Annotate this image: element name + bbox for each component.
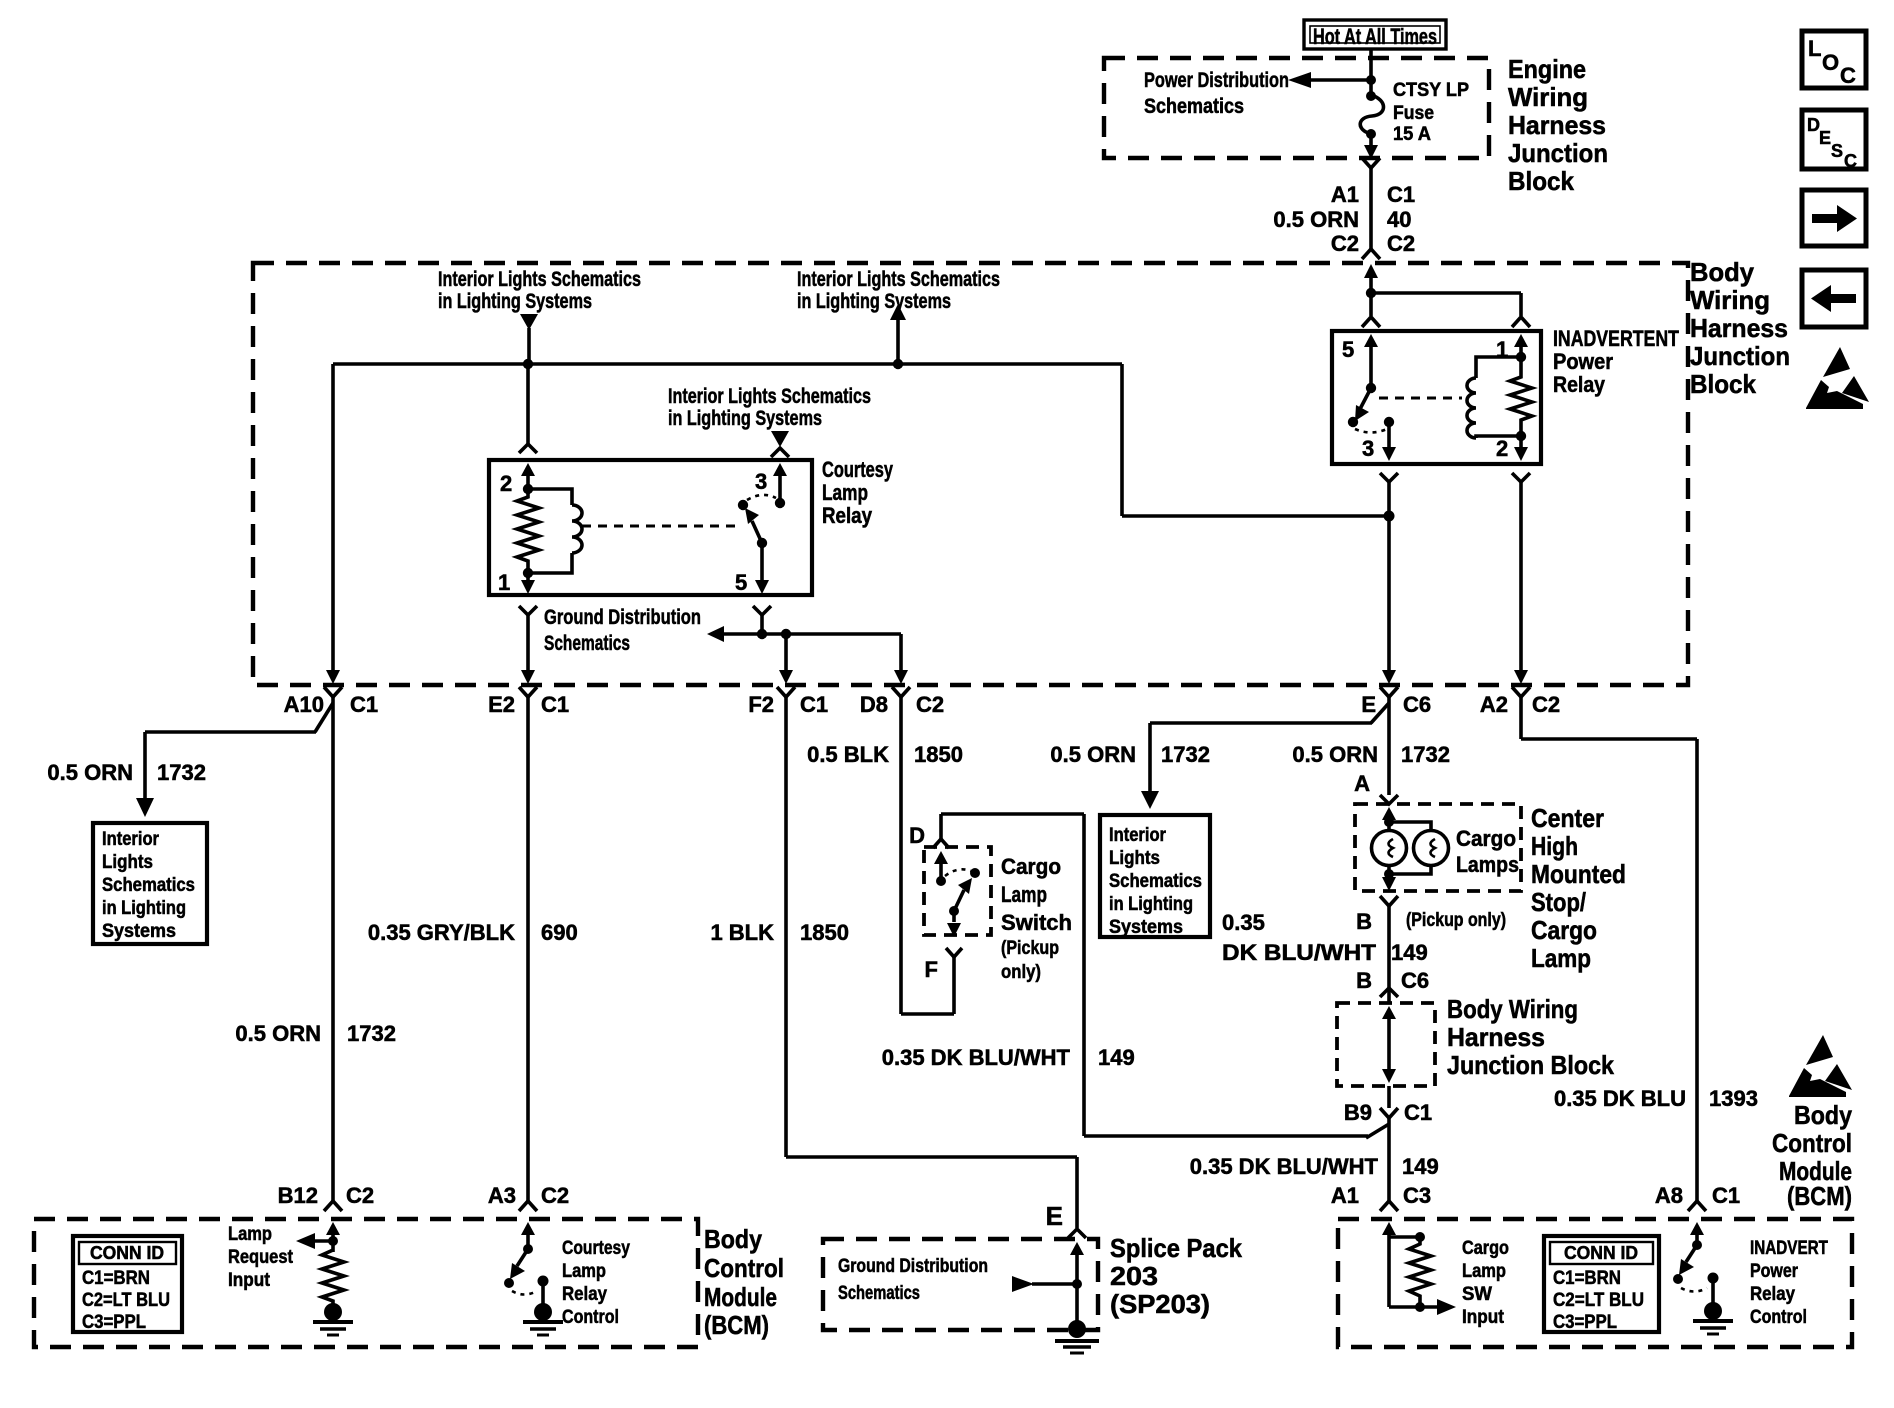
svg-text:Lamp: Lamp [228, 1224, 272, 1245]
BCM A3 entry arrow [521, 1222, 535, 1247]
connector half at relay pin 1 [1512, 317, 1530, 327]
label 0.35 DK BLU/WHT 149 upper [1222, 910, 1428, 965]
relay K2 switch contact left [1348, 417, 1358, 427]
svg-text:Cargo: Cargo [1531, 915, 1597, 945]
wire D8 branch to exit [894, 634, 908, 684]
engine wiring harness junction block dashed box [1104, 58, 1489, 158]
svg-text:C3=PPL: C3=PPL [82, 1312, 146, 1333]
relay K1 pin 2 entry [500, 463, 535, 496]
svg-text:in Lighting: in Lighting [1109, 894, 1193, 915]
wire relay K2 pin 2 down to A2/C2 exit [1514, 482, 1528, 684]
switch S1 contact left [936, 876, 946, 886]
label Body Wiring Harness Junction Block small [1447, 994, 1614, 1080]
wire relay K1 pin1 to ground exit E2 [521, 615, 535, 684]
relay K1 coil bottom node [523, 568, 533, 578]
svg-text:Lamp: Lamp [562, 1261, 606, 1282]
cargo lamp sw input resistor crossbar [1389, 1232, 1425, 1242]
svg-text:C3: C3 [1403, 1183, 1431, 1208]
svg-text:40: 40 [1387, 207, 1411, 232]
icon LOC box [1802, 31, 1866, 88]
lamp request tap arrow [296, 1233, 338, 1249]
svg-text:D: D [909, 823, 925, 848]
wire A10 feed down to exit [326, 364, 340, 684]
ground bus wire with reference arrow [707, 626, 901, 642]
svg-text:S: S [1831, 141, 1843, 161]
svg-text:C1: C1 [350, 692, 378, 717]
svg-text:690: 690 [541, 920, 578, 945]
relay K1 switch contact left [738, 500, 748, 510]
svg-text:1732: 1732 [1161, 742, 1210, 767]
svg-text:Wiring: Wiring [1508, 82, 1588, 112]
node junction dot feeding relay pins 5 and 1 [1366, 288, 1376, 298]
svg-text:Power Distribution: Power Distribution [1144, 69, 1289, 92]
svg-text:C2=LT BLU: C2=LT BLU [82, 1290, 170, 1311]
relay K1 coil top node [523, 484, 533, 494]
svg-text:in Lighting: in Lighting [102, 898, 186, 919]
connector B12/C2 [278, 1183, 374, 1211]
lamp feed entry [1382, 807, 1396, 831]
module BCM left dashed box [34, 1219, 698, 1347]
conn id table right [1544, 1236, 1659, 1333]
svg-text:L: L [1808, 36, 1821, 61]
svg-text:Power: Power [1750, 1261, 1798, 1282]
svg-text:0.5 ORN: 0.5 ORN [1050, 742, 1136, 767]
wire F2 branch to exit [779, 634, 793, 684]
wire B9 down to A1 [1387, 1118, 1391, 1201]
svg-text:0.35 DK BLU: 0.35 DK BLU [1554, 1086, 1686, 1111]
svg-text:Junction Block: Junction Block [1447, 1050, 1614, 1080]
relay K2 switch contact right [1384, 417, 1394, 427]
label 0.5 ORN 1732 tap [1050, 742, 1210, 767]
svg-text:C1: C1 [1404, 1100, 1432, 1125]
icon ESD warning top [1806, 347, 1869, 409]
svg-text:Schematics: Schematics [838, 1283, 920, 1304]
svg-text:Lamp: Lamp [1462, 1261, 1506, 1282]
body wiring harness junction block dashed box [253, 263, 1688, 685]
svg-text:Body: Body [704, 1224, 762, 1254]
svg-text:Input: Input [1462, 1307, 1505, 1328]
connector E2/C1 [488, 687, 569, 717]
wire down to E/C6 exit [1382, 516, 1396, 684]
svg-text:Control: Control [562, 1307, 619, 1328]
relay K2 switch pivot [1366, 383, 1376, 393]
node ground bus at F2 branch [781, 629, 791, 639]
svg-text:Interior Lights Schematics: Interior Lights Schematics [797, 268, 1000, 291]
resistor cargo lamp sw input [1409, 1237, 1431, 1307]
svg-text:Ground Distribution: Ground Distribution [838, 1256, 988, 1277]
svg-text:Hot At All Times: Hot At All Times [1313, 24, 1437, 49]
label 0.35 DK BLU/WHT 149 lower [1190, 1154, 1439, 1179]
node splice of bus into pin3 wire [1384, 511, 1395, 522]
label Ground Distribution Schematics bottom [838, 1256, 988, 1304]
svg-text:5: 5 [1342, 337, 1354, 362]
wire from hot banner [1369, 49, 1373, 96]
relay K2 coil top node [1516, 352, 1526, 362]
svg-text:1732: 1732 [1401, 742, 1450, 767]
connector A2/C2 [1480, 687, 1560, 717]
lamp bus top [1389, 822, 1431, 831]
lamp L1 cargo lamp left [1372, 831, 1407, 866]
svg-text:C2=LT BLU: C2=LT BLU [1553, 1290, 1644, 1311]
svg-text:15 A: 15 A [1393, 124, 1431, 145]
relay K2 coil branch [1467, 357, 1521, 438]
ref box Interior Lights Schematics left [93, 823, 207, 944]
svg-text:C1: C1 [1387, 182, 1415, 207]
wire B down to junction block [1387, 906, 1391, 1003]
ground G203 splice pack [1055, 1320, 1099, 1353]
switch S1 cargo lamp switch dashed box [924, 847, 991, 935]
svg-text:E: E [1046, 1201, 1063, 1231]
label Courtesy Lamp Relay Control [562, 1238, 630, 1328]
relay K2 pin 1 wire [1496, 334, 1528, 362]
svg-text:Junction: Junction [1508, 138, 1608, 168]
ref Ground Distribution Schematics [544, 606, 701, 655]
connector A8/C1 [1655, 1183, 1740, 1211]
ref Interior Lights Schematics middle [668, 385, 871, 447]
svg-text:Courtesy: Courtesy [822, 457, 894, 482]
node ground bus at pin5 [757, 629, 767, 639]
svg-text:only): only) [1001, 962, 1041, 983]
svg-text:0.5 ORN: 0.5 ORN [47, 760, 133, 785]
wire fuse to connector [1364, 134, 1378, 159]
wire B9 tap to cargo switch loop [1084, 1124, 1389, 1138]
splice feed reference arrow [1012, 1276, 1077, 1292]
relay K1 pin 3 entry [755, 463, 787, 503]
courtesy relay control switch top node [523, 1244, 533, 1254]
svg-text:A1: A1 [1331, 182, 1359, 207]
svg-text:Interior Lights Schematics: Interior Lights Schematics [668, 385, 871, 408]
wire over to relay pin 1 [1371, 293, 1521, 316]
relay K2 INADVERTENT power relay box [1332, 331, 1541, 464]
switch S1 travel arc [945, 869, 971, 876]
ground at lamp request resistor [313, 1303, 353, 1335]
relay K2 pin 2 wire [1496, 436, 1528, 461]
ref Interior Lights Schematics right [797, 268, 1000, 364]
svg-text:1850: 1850 [914, 742, 963, 767]
switch S1 contact right [970, 868, 980, 878]
svg-text:Body Wiring: Body Wiring [1447, 994, 1578, 1024]
lamp assembly dashed box [1355, 804, 1521, 891]
svg-text:Courtesy: Courtesy [562, 1238, 630, 1259]
svg-text:D8: D8 [860, 692, 888, 717]
connector half at F [946, 948, 962, 957]
label 0.35 DK BLU/WHT 149 middle [882, 1045, 1135, 1070]
connector half below relay K2 pin 2 [1512, 473, 1530, 482]
label 0.35 GRY/BLK 690 [368, 920, 578, 945]
icon forward arrow box [1802, 190, 1866, 246]
svg-text:C1=BRN: C1=BRN [82, 1268, 150, 1289]
wire D loop over to B9 [941, 814, 1084, 1136]
BCM B12 entry arrow [326, 1222, 340, 1252]
svg-text:C2: C2 [916, 692, 944, 717]
svg-text:Cargo: Cargo [1001, 854, 1061, 879]
label 0.5 ORN 1732 on A10 column [235, 1021, 396, 1046]
svg-text:149: 149 [1402, 1154, 1439, 1179]
ground distribution dashed box [823, 1239, 1098, 1330]
svg-text:A2: A2 [1480, 692, 1508, 717]
wire entry from C2 into body box [1364, 264, 1378, 293]
svg-text:3: 3 [1362, 436, 1374, 461]
svg-text:Relay: Relay [822, 503, 873, 528]
svg-text:Systems: Systems [1109, 917, 1183, 938]
svg-text:0.35: 0.35 [1222, 910, 1265, 935]
connector half at E [1068, 1229, 1086, 1238]
wire to relay pin 5 [1369, 293, 1373, 316]
svg-text:Control: Control [1750, 1307, 1807, 1328]
switch S1 F-side exit [947, 911, 961, 937]
svg-text:A10: A10 [284, 692, 324, 717]
label 0.35 DK BLU 1393 [1554, 1086, 1758, 1111]
splice pack entry arrow [1070, 1242, 1084, 1322]
svg-text:0.5 ORN: 0.5 ORN [1273, 207, 1359, 232]
courtesy relay control stub and ground [523, 1276, 563, 1336]
wire bus down to courtesy relay pin 2 [526, 364, 530, 444]
svg-text:(Pickup: (Pickup [1001, 938, 1059, 959]
svg-text:B12: B12 [278, 1183, 318, 1208]
label Cargo Lamps [1456, 826, 1519, 877]
switch S1 arm [954, 878, 972, 911]
svg-text:Harness: Harness [1690, 313, 1788, 343]
svg-text:Lamp: Lamp [822, 480, 868, 505]
svg-text:Splice Pack: Splice Pack [1110, 1233, 1242, 1263]
node lamp top [1384, 817, 1394, 827]
svg-text:Interior: Interior [102, 829, 160, 850]
svg-text:Block: Block [1690, 369, 1756, 399]
svg-text:A: A [1354, 771, 1370, 796]
svg-text:2: 2 [500, 471, 512, 496]
BCM A8 entry arrow [1690, 1222, 1704, 1243]
svg-text:Lamp: Lamp [1001, 882, 1047, 907]
node lamp bottom [1384, 869, 1394, 879]
svg-text:A3: A3 [488, 1183, 516, 1208]
svg-text:0.35 DK BLU/WHT: 0.35 DK BLU/WHT [1190, 1154, 1379, 1179]
svg-text:B: B [1356, 909, 1372, 934]
svg-text:F2: F2 [748, 692, 774, 717]
svg-text:C1: C1 [541, 692, 569, 717]
svg-text:1 BLK: 1 BLK [710, 920, 774, 945]
node bus tap right lamp feed [893, 359, 903, 369]
svg-text:5: 5 [735, 570, 747, 595]
svg-text:203: 203 [1110, 1261, 1158, 1291]
lamp exit wire [1382, 866, 1396, 891]
BCM A1 entry arrow [1382, 1222, 1396, 1307]
svg-text:1393: 1393 [1709, 1086, 1758, 1111]
connector A1/C1 [1331, 158, 1415, 207]
svg-text:Schematics: Schematics [1144, 95, 1244, 118]
svg-text:Fuse: Fuse [1393, 103, 1434, 124]
junction block entry arrow [1382, 1006, 1396, 1083]
svg-text:Engine: Engine [1508, 54, 1586, 84]
icon back arrow box [1802, 270, 1866, 327]
wire 0.5 ORN 40 [1273, 168, 1411, 249]
node splice junction [1072, 1279, 1082, 1289]
svg-text:3: 3 [755, 469, 767, 494]
label Power Distribution Schematics [1144, 69, 1289, 118]
connector half below relay K2 pin 3 [1380, 473, 1398, 482]
svg-text:A1: A1 [1331, 1183, 1359, 1208]
svg-text:INADVERT: INADVERT [1750, 1238, 1828, 1259]
wire E column down to lamps [1387, 697, 1391, 795]
svg-text:Schematics: Schematics [102, 875, 195, 896]
label Cargo Lamp Switch [1001, 854, 1072, 983]
relay K2 switch travel arc [1355, 429, 1387, 433]
svg-text:Control: Control [704, 1253, 784, 1283]
connector half at relay pin 5 [1362, 317, 1380, 327]
relay K2 actuation dashed link [1379, 397, 1462, 400]
relay K2 resistor [1510, 357, 1532, 436]
svg-text:DK BLU/WHT: DK BLU/WHT [1222, 940, 1377, 965]
label Body Control Module (BCM) left [704, 1224, 784, 1340]
connector B/C6 [1356, 968, 1429, 997]
wire relay K1 pin5 down to ground bus [760, 615, 764, 634]
svg-text:C1: C1 [1712, 1183, 1740, 1208]
connector half at D [933, 839, 949, 848]
svg-text:CONN ID: CONN ID [90, 1243, 164, 1263]
svg-text:in Lighting Systems: in Lighting Systems [797, 290, 951, 313]
svg-text:Stop/: Stop/ [1531, 887, 1586, 917]
svg-text:E2: E2 [488, 692, 515, 717]
label Engine Wiring Harness Junction Block [1508, 54, 1608, 196]
connector F2/C1 [748, 687, 828, 717]
svg-text:C2: C2 [1331, 231, 1359, 256]
svg-text:Mounted: Mounted [1531, 859, 1626, 889]
relay K1 coil branch [528, 489, 582, 573]
svg-text:C2: C2 [1387, 231, 1415, 256]
svg-text:C: C [1840, 63, 1856, 88]
label INADVERT Power Relay Control [1750, 1238, 1828, 1328]
connector A3/C2 [488, 1183, 569, 1211]
relay K1 pin 1 exit [498, 570, 535, 595]
relay K1 actuation dashed link [582, 525, 738, 528]
svg-text:Lamp: Lamp [1531, 943, 1591, 973]
svg-text:1732: 1732 [157, 760, 206, 785]
svg-text:SW: SW [1462, 1284, 1492, 1305]
svg-text:Relay: Relay [1750, 1284, 1795, 1305]
connector A1/C3 [1331, 1183, 1431, 1211]
relay K2 pin 3 wire [1362, 422, 1396, 461]
svg-text:0.35 DK BLU/WHT: 0.35 DK BLU/WHT [882, 1045, 1071, 1070]
svg-text:Cargo: Cargo [1456, 826, 1516, 851]
inadvert relay control switch top node [1692, 1240, 1702, 1250]
svg-text:0.35 GRY/BLK: 0.35 GRY/BLK [368, 920, 515, 945]
label Lamp Request Input [228, 1224, 294, 1291]
svg-text:Cargo: Cargo [1462, 1238, 1509, 1259]
icon DESC box [1802, 110, 1866, 171]
ref Interior Lights Schematics left [438, 268, 641, 364]
svg-text:B: B [1356, 968, 1372, 993]
svg-text:(SP203): (SP203) [1110, 1289, 1210, 1319]
label Splice Pack 203 (SP203) [1110, 1233, 1242, 1319]
wire arrow to power distribution [1288, 72, 1376, 88]
relay K1 resistor [517, 489, 539, 573]
svg-text:Input: Input [228, 1270, 271, 1291]
label Body Control Module (BCM) right [1772, 1100, 1852, 1186]
svg-text:Relay: Relay [1553, 372, 1606, 397]
svg-text:C: C [1844, 151, 1857, 171]
icon ESD warning bottom right [1789, 1035, 1852, 1097]
svg-text:1: 1 [498, 570, 510, 595]
svg-text:Center: Center [1531, 803, 1604, 833]
svg-text:Systems: Systems [102, 921, 176, 942]
wire F down to bottom jog [952, 957, 956, 1014]
svg-text:Interior: Interior [1109, 825, 1167, 846]
connector C2/C2 [1331, 231, 1415, 259]
relay K1 switch contact right [775, 498, 785, 508]
svg-text:Lights: Lights [102, 852, 153, 873]
svg-text:Wiring: Wiring [1690, 285, 1770, 315]
svg-text:Lamps: Lamps [1456, 852, 1519, 877]
svg-text:2: 2 [1496, 436, 1508, 461]
module BCM right dashed box [1338, 1219, 1852, 1347]
wire E tap to interior lights ref [1141, 703, 1389, 809]
svg-text:B9: B9 [1344, 1100, 1372, 1125]
svg-text:C2: C2 [1532, 692, 1560, 717]
svg-text:Harness: Harness [1447, 1022, 1545, 1052]
svg-text:C1=BRN: C1=BRN [1553, 1268, 1621, 1289]
inadvert relay control stub and ground [1693, 1273, 1733, 1335]
svg-text:1850: 1850 [800, 920, 849, 945]
ref box Interior Lights Schematics right [1100, 815, 1210, 938]
svg-text:149: 149 [1391, 940, 1428, 965]
svg-text:Block: Block [1508, 166, 1574, 196]
svg-text:Harness: Harness [1508, 110, 1606, 140]
conn id table left [73, 1236, 182, 1333]
connector B9/C1 [1344, 1100, 1432, 1125]
svg-text:E: E [1361, 692, 1376, 717]
node bus tap left lamp feed [523, 359, 533, 369]
svg-text:Ground Distribution: Ground Distribution [544, 606, 701, 629]
label INADVERTENT Power Relay [1553, 326, 1679, 397]
svg-text:Junction: Junction [1690, 341, 1790, 371]
relay K1 courtesy lamp relay box [489, 460, 812, 595]
svg-text:Interior Lights Schematics: Interior Lights Schematics [438, 268, 641, 291]
wire A10 column down to B12 [331, 697, 335, 1201]
courtesy relay control switch pivot [504, 1278, 514, 1288]
connector half at A [1380, 795, 1398, 804]
svg-text:CONN ID: CONN ID [1564, 1243, 1638, 1263]
label CTSY LP Fuse 15 A [1393, 80, 1469, 145]
svg-text:Switch: Switch [1001, 910, 1072, 935]
svg-text:0.5 ORN: 0.5 ORN [1292, 742, 1378, 767]
svg-text:Schematics: Schematics [1109, 871, 1202, 892]
svg-text:(Pickup only): (Pickup only) [1406, 910, 1506, 931]
wire tap from A10 to interior lights ref [136, 703, 333, 817]
connector E/C6 [1361, 687, 1431, 717]
svg-text:(BCM): (BCM) [704, 1310, 769, 1340]
label Body Wiring Harness Junction Block [1690, 257, 1790, 399]
inadvert relay control travel arc [1681, 1288, 1707, 1292]
label Courtesy Lamp Relay [822, 457, 894, 528]
wire E2 column down to A3 [526, 697, 530, 1201]
svg-text:Schematics: Schematics [544, 632, 630, 655]
svg-text:E: E [1819, 128, 1831, 148]
relay K2 switch arm [1355, 388, 1371, 421]
svg-text:C1: C1 [800, 692, 828, 717]
relay K1 pin 5 exit [735, 543, 769, 595]
wire A2 over and down to A8 [1521, 697, 1697, 1201]
svg-text:in Lighting Systems: in Lighting Systems [438, 290, 592, 313]
svg-text:in Lighting Systems: in Lighting Systems [668, 407, 822, 430]
connector half at B [1380, 896, 1398, 906]
main bus wire across body box [333, 364, 1389, 516]
svg-text:C2: C2 [541, 1183, 569, 1208]
courtesy relay control travel arc [512, 1291, 537, 1295]
svg-text:0.5 ORN: 0.5 ORN [235, 1021, 321, 1046]
label Cargo Lamp SW Input [1462, 1238, 1509, 1328]
connector half at courtesy relay pin 3 [771, 448, 789, 457]
svg-text:(BCM): (BCM) [1787, 1181, 1852, 1211]
junction block small dashed box [1337, 1003, 1435, 1086]
